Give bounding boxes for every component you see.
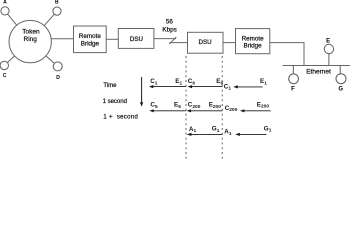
svg-text:Ethernet: Ethernet xyxy=(306,69,331,76)
svg-text:B: B xyxy=(55,0,59,6)
remote bridge 2 xyxy=(236,29,270,54)
station node C xyxy=(0,61,8,69)
DSU 2 xyxy=(188,32,224,53)
station G drop xyxy=(339,66,341,75)
row 2: arrow between dashed lines xyxy=(191,110,223,112)
svg-text:Ring: Ring xyxy=(24,36,38,43)
svg-text:DSU: DSU xyxy=(130,36,143,43)
svg-text:E6: E6 xyxy=(216,78,223,86)
wire spoke ring to node D xyxy=(30,42,58,67)
row 3: arrow on ethernet xyxy=(239,133,266,135)
svg-text:C1: C1 xyxy=(224,83,232,91)
svg-text:56: 56 xyxy=(166,19,174,26)
svg-text:1 + second: 1 + second xyxy=(103,114,138,120)
row 2: arrow left of dashed1 xyxy=(153,110,185,112)
wire break to DSU2 xyxy=(170,42,188,44)
time axis xyxy=(141,77,143,103)
row 3: arrow between dashed lines xyxy=(191,133,223,135)
svg-text:DSU: DSU xyxy=(199,39,212,46)
station node D xyxy=(53,62,62,71)
svg-text:A1: A1 xyxy=(189,126,197,134)
station node F xyxy=(289,74,299,84)
svg-text:Kbps: Kbps xyxy=(162,27,176,34)
station node A xyxy=(1,7,9,15)
svg-text:Remote: Remote xyxy=(242,35,265,42)
link break slash xyxy=(169,37,176,44)
svg-text:F: F xyxy=(291,86,295,92)
station node E xyxy=(324,44,333,53)
station node B xyxy=(53,7,61,15)
wire spoke ring to node A xyxy=(5,11,30,42)
remote bridge 1 xyxy=(74,26,107,53)
row 1: arrow on ethernet xyxy=(237,86,263,88)
row 1: arrow left of dashed1 xyxy=(153,86,186,88)
DSU 1 xyxy=(118,29,154,49)
svg-text:E5: E5 xyxy=(174,102,181,110)
svg-text:G1: G1 xyxy=(264,125,272,133)
dashed timeline line under DSU2/right xyxy=(221,56,223,162)
svg-text:C200: C200 xyxy=(225,105,238,113)
row 1: arrow between dashed lines xyxy=(192,86,223,88)
svg-text:C200: C200 xyxy=(188,102,201,110)
wire bridge2 to ethernet xyxy=(270,43,304,66)
svg-text:E1: E1 xyxy=(175,78,182,86)
svg-text:Token: Token xyxy=(22,29,40,36)
row 2: arrow on ethernet xyxy=(244,110,271,112)
svg-text:Bridge: Bridge xyxy=(243,42,262,49)
station F drop xyxy=(292,66,294,75)
wire DSU2 to bridge2 xyxy=(223,42,236,44)
svg-text:A1: A1 xyxy=(224,129,232,137)
svg-text:C5: C5 xyxy=(150,102,158,110)
svg-text:D: D xyxy=(56,75,60,81)
dashed timeline line under DSU1/left xyxy=(185,56,187,162)
svg-text:E200: E200 xyxy=(257,101,270,109)
station E drop xyxy=(328,54,330,66)
svg-text:E: E xyxy=(326,38,330,44)
svg-text:A: A xyxy=(3,0,7,6)
svg-text:G1: G1 xyxy=(212,126,220,134)
wire spoke ring to node B xyxy=(30,11,57,41)
svg-text:C: C xyxy=(3,73,7,79)
svg-text:E1: E1 xyxy=(260,78,267,86)
wire DSU1 to break xyxy=(154,38,176,40)
svg-text:Bridge: Bridge xyxy=(81,40,100,47)
svg-text:G: G xyxy=(338,87,343,93)
svg-text:1 second: 1 second xyxy=(103,99,127,105)
svg-text:E200: E200 xyxy=(209,102,222,110)
svg-text:Remote: Remote xyxy=(79,33,102,40)
wire bridge1 to DSU1 xyxy=(106,38,118,40)
wire ring to remote bridge 1 xyxy=(40,38,74,40)
svg-text:C1: C1 xyxy=(150,78,158,86)
station node G xyxy=(336,74,346,84)
wire spoke ring to node C xyxy=(4,42,30,66)
token ring LAN xyxy=(9,20,51,62)
ethernet bus xyxy=(283,65,350,67)
svg-text:Time: Time xyxy=(103,83,117,89)
